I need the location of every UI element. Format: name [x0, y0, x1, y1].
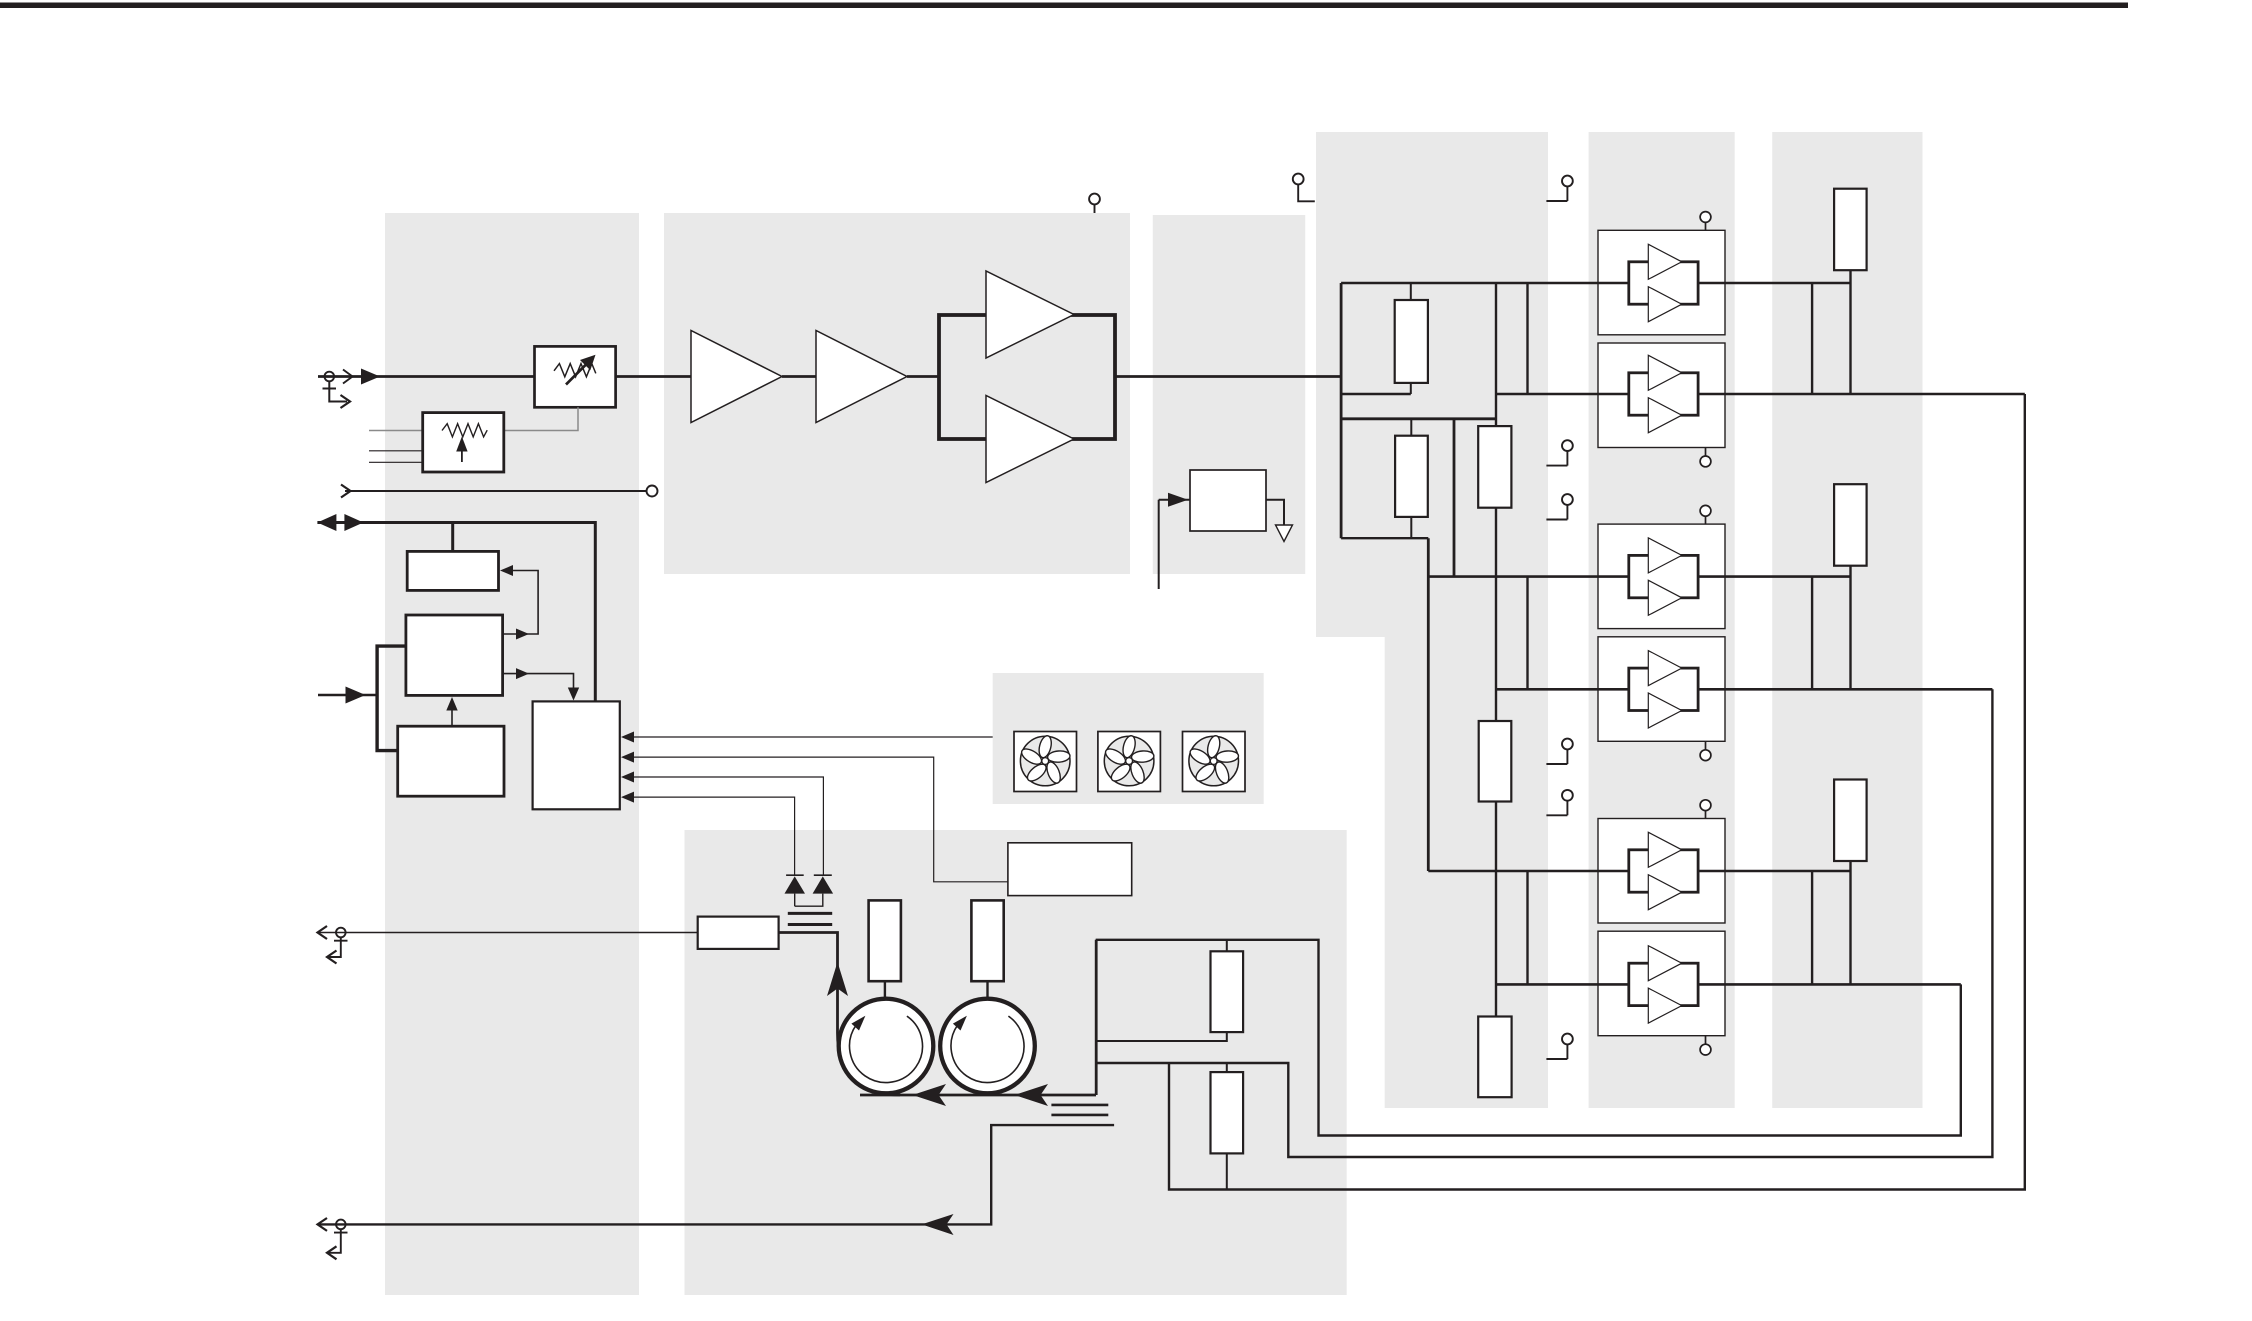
coupler ladder rung pair3 [1526, 871, 1528, 984]
test point TP2 with bend [1293, 174, 1315, 202]
gray panel: combiner column [1772, 132, 1922, 1108]
arrowhead reflected to port [922, 1214, 954, 1235]
bracket wire to N2 and N3 [377, 646, 406, 751]
wrap line pair2 output [1096, 689, 1992, 1157]
PA module A2 housing [1598, 343, 1725, 448]
test point A4 [1700, 741, 1711, 760]
arrowhead forward output up [827, 962, 848, 996]
bus 4 feed line [1496, 688, 1992, 691]
combiner resistor R10 line [1849, 861, 1851, 984]
test point TP1 above driver [1089, 194, 1100, 213]
gray panel: PA modules column [1589, 132, 1735, 1108]
tier resistor R4 stubs [1410, 419, 1412, 538]
PA module A4 amplifier [1629, 651, 1698, 728]
balance resistor R12 [1211, 1072, 1244, 1153]
switch S2 [1546, 440, 1572, 465]
combining node rail [1095, 940, 1098, 1095]
reflected monitor line to port X5 [319, 1125, 1114, 1224]
arrowhead into mute box [1168, 493, 1188, 507]
port X4 RF output monitor [318, 926, 698, 964]
splitter resistor R3 [1395, 300, 1428, 383]
gray panel: splitter column upper [1316, 132, 1548, 637]
PA module A1 amplifier [1629, 244, 1698, 321]
balance resistor R11 stubs [1096, 940, 1227, 1041]
switch S5 [1546, 790, 1572, 815]
bus 1 feed line [1341, 282, 1850, 285]
reflected coupler plates [1051, 1105, 1108, 1115]
combiner link pair2 [1811, 577, 1813, 690]
arrowhead on N2 lower output [516, 668, 529, 679]
gray panel: output/circulator section [685, 830, 1347, 1295]
switch S3 [1546, 494, 1572, 519]
detector box [1008, 843, 1132, 896]
wrap line pair3 output [1096, 940, 1961, 1136]
drop to pair2 feed [1453, 419, 1456, 577]
gray panel: driver amplifier [664, 213, 1130, 574]
PA module A5 amplifier [1629, 832, 1698, 909]
bus 5 feed line [1428, 870, 1850, 873]
monitor input wire from diode 1 [623, 797, 795, 875]
splitter input stem [1340, 283, 1343, 538]
bus 2 left segment [1341, 393, 1411, 395]
test point A6 [1700, 1036, 1711, 1055]
port X3 control input [318, 687, 377, 704]
combiner resistor R9 line [1849, 565, 1851, 689]
monitor input wire from diode 2 [623, 777, 823, 875]
switch S1 [1546, 176, 1572, 201]
monitor input wire from fans [623, 736, 993, 738]
PA module A3 amplifier [1629, 538, 1698, 615]
test point A2 [1700, 448, 1711, 467]
combiner resistor R8 line [1849, 270, 1851, 394]
combined line into circulator 2 [860, 1094, 1096, 1097]
PA module A2 amplifier [1629, 355, 1698, 432]
PA module A6 housing [1598, 931, 1725, 1035]
top border rule [0, 3, 2128, 9]
arrowhead on N2 output [516, 629, 529, 640]
diode V5 [795, 875, 833, 906]
coupler ladder rung pair1 [1526, 283, 1528, 394]
fan E2 [1098, 732, 1161, 792]
switch S6 [1546, 1034, 1572, 1059]
third tier line [1341, 537, 1428, 539]
ladder resistor R6 [1479, 721, 1512, 802]
PA module A6 amplifier [1629, 946, 1698, 1023]
combiner resistor R9 [1834, 484, 1867, 566]
wire amp2 to driver stage [907, 375, 939, 378]
bus 2 feed line [1496, 393, 2025, 396]
diode V4 [785, 875, 806, 906]
mute control wire [1159, 500, 1190, 589]
port X1 RF input connector [318, 369, 535, 409]
wire N3 to N2 with arrow [451, 704, 453, 726]
arrowhead into circulator 2 [1014, 1084, 1048, 1106]
wire attenuator to amp1 [615, 375, 691, 378]
control box N1 [407, 551, 498, 590]
wrap line pair1 output [1169, 394, 2025, 1190]
bus 3 feed line [1428, 575, 1850, 578]
feedback wire N2 to N1 [503, 571, 538, 635]
tier resistor R4 [1395, 436, 1428, 517]
port X5 reflected monitor [318, 1218, 348, 1259]
arrowhead detector status [621, 752, 634, 763]
switch S4 [1546, 739, 1572, 764]
driver dual amplifier stage V3 [939, 271, 1115, 483]
AGC potentiometer P1 [369, 407, 578, 472]
ladder resistor R7 [1478, 1017, 1511, 1098]
monitor input wire from detector [623, 757, 1008, 882]
test point A1 [1700, 212, 1711, 231]
drop to pair3 feed [1427, 538, 1430, 871]
arrowhead into N1 [500, 565, 513, 576]
circulator W2 [940, 999, 1035, 1094]
gray panel: exciter/control column [385, 213, 639, 1295]
PA module A5 housing [1598, 819, 1725, 924]
PA module A3 housing [1598, 524, 1725, 629]
mute box [1190, 470, 1266, 531]
fan E1 [1014, 732, 1077, 792]
balance resistor R12 stubs [1226, 1063, 1228, 1190]
combiner link pair1 [1811, 283, 1813, 394]
variable attenuator A1 [535, 346, 616, 407]
wire N2 to monitor unit [503, 674, 574, 696]
ladder resistor R5 [1478, 426, 1511, 508]
test point A5 [1700, 800, 1711, 819]
gray panel: fans box [993, 673, 1264, 804]
combiner resistor R10 [1834, 780, 1867, 862]
mute output with open triangle [1266, 500, 1293, 542]
control box N2 [406, 615, 503, 695]
output feed line to circulator 1 [779, 933, 900, 1096]
coupler ladder main rail [1495, 283, 1497, 1017]
combiner link pair3 [1811, 871, 1813, 984]
remote line with open end [341, 485, 658, 498]
load resistor R2 [971, 900, 1003, 999]
gray panel: splitter column lower [1385, 637, 1548, 1108]
PA module A1 housing [1598, 230, 1725, 334]
directional coupler box [698, 917, 779, 949]
wire amp1 to amp2 [782, 375, 816, 378]
wire driver output to splitter [1115, 375, 1341, 378]
combiner resistor R8 [1834, 189, 1867, 271]
circulator W1 [839, 999, 934, 1094]
arrowhead diode2 [621, 772, 634, 783]
bus 6 feed line [1496, 983, 1961, 986]
PA module A4 housing [1598, 637, 1725, 742]
arrowhead into monitor top [568, 688, 579, 701]
forward coupler plates [788, 913, 832, 924]
load resistor R1 [869, 900, 901, 999]
arrowhead fan status [621, 732, 634, 743]
gray panel: mute block [1153, 215, 1305, 574]
port X2 exciter interface bidirectional [317, 514, 595, 701]
balance resistor R11 [1211, 951, 1244, 1032]
coupler ladder rung pair2 [1526, 577, 1528, 690]
second tier bus B [1341, 417, 1496, 420]
fan E3 [1183, 732, 1246, 792]
splitter resistor R3 stubs [1410, 283, 1412, 394]
test point A3 [1700, 505, 1711, 524]
arrowhead into circulator 1 [913, 1084, 947, 1106]
monitor unit N4 [533, 701, 620, 809]
control box N3 [398, 726, 504, 796]
arrowhead N3 to N2 [446, 697, 457, 711]
wire to AGC box [451, 523, 454, 552]
amplifier V1 [691, 331, 782, 423]
arrowhead diode1 [621, 792, 634, 803]
amplifier V2 [816, 331, 907, 423]
